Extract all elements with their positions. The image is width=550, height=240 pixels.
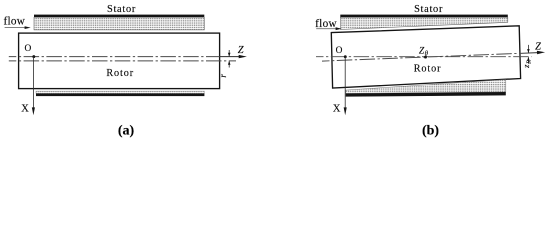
stator axis (b) horizontal dash-dot line (316, 56, 532, 58)
flow arrow (b) (316, 28, 336, 30)
svg-text:Stator: Stator (414, 4, 443, 15)
X axis line (a) (32, 57, 34, 109)
dimension label r (a), rotated (218, 74, 228, 78)
origin dot O (b) (344, 55, 347, 58)
stator (b) bottom stipple wedge (346, 80, 506, 94)
dimension label z_R (b), rotated (521, 60, 533, 69)
Z axis arrow (a) (220, 56, 240, 58)
svg-text:Z: Z (238, 45, 244, 56)
svg-text:flow: flow (3, 15, 25, 27)
rotor axis (b) tilted dash-dot line Z_theta (322, 53, 521, 61)
stator (a) bottom black bar (36, 94, 204, 97)
svg-text:X: X (333, 103, 341, 114)
svg-text:X: X (21, 103, 29, 114)
dimension z_R upper arrow (b) (527, 45, 529, 53)
svg-text:(b): (b) (422, 124, 439, 139)
svg-text:Rotor: Rotor (106, 68, 134, 79)
pivot dot on tilted axis (b) (424, 56, 427, 59)
rotor (b) tilted body (331, 26, 520, 88)
rotor axis (a) dash-dot line (9, 60, 236, 62)
X axis arrowhead (b) (344, 107, 347, 115)
svg-text:O: O (336, 46, 343, 56)
X axis line (b) (344, 57, 346, 109)
rotor (a) body (19, 33, 220, 89)
svg-text:flow: flow (315, 18, 337, 30)
dimension r upper arrow (a) (228, 50, 230, 56)
svg-text:r: r (218, 74, 228, 78)
stator (b) bottom black bar (346, 92, 506, 97)
svg-text:(a): (a) (118, 124, 135, 139)
Z axis arrow (b), along tilted axis (521, 52, 539, 55)
stator axis (a) dash-dot line (9, 56, 220, 58)
svg-text:Stator: Stator (107, 4, 136, 15)
svg-text:Rotor: Rotor (414, 64, 442, 75)
stator (a) top stipple block (34, 17, 204, 30)
dimension z_R lower arrow (b) (527, 57, 529, 64)
svg-text:O: O (25, 44, 32, 54)
dimension r lower arrow (a) (228, 61, 230, 67)
svg-text:Z: Z (535, 42, 541, 53)
stator (a) bottom stipple strip (36, 91, 204, 93)
stator (a) top black bar (34, 15, 204, 18)
origin dot O (a) (32, 55, 35, 58)
X axis arrowhead (a) (32, 107, 35, 115)
svg-text:R: R (526, 60, 533, 65)
flow arrow (a) (5, 27, 26, 29)
stator (b) top stipple wedge (340, 17, 508, 29)
stator (b) top black bar (340, 15, 508, 18)
